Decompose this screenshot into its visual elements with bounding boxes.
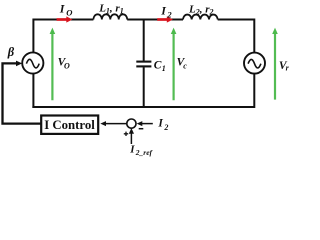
svg-text:I: I [129,144,135,156]
svg-text:2: 2 [163,123,168,132]
svg-text:C: C [154,60,162,72]
svg-text:I Control: I Control [44,118,95,132]
svg-text:1: 1 [162,64,166,73]
svg-text:β: β [7,45,15,59]
svg-text:2: 2 [166,9,172,19]
svg-text:O: O [66,7,72,17]
svg-text:O: O [64,62,70,71]
svg-text:c: c [183,62,187,71]
svg-text:2_ref: 2_ref [135,148,154,157]
svg-text:I: I [157,118,163,130]
